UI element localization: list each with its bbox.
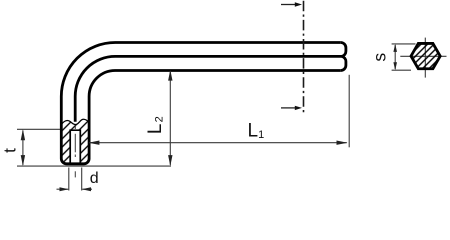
wavy break line [61, 119, 89, 124]
cutting plane arrow top [281, 4, 297, 6]
svg-text:d: d [90, 170, 99, 187]
dimension s line and arrows [394, 45, 396, 69]
hatched section of short arm [61, 119, 89, 164]
hexagon section centerline horizontal [400, 55, 446, 57]
centerline inside hole [74, 125, 76, 129]
svg-text:t: t [0, 148, 19, 153]
dimension d line and arrows [57, 188, 69, 190]
dimension t extension line top [17, 128, 61, 130]
dimension d extension lines [68, 168, 70, 191]
key body outline [61, 43, 340, 164]
section cutting plane chain line [303, 1, 305, 114]
dimension L1 line [89, 142, 347, 144]
svg-text:s: s [370, 53, 390, 62]
hexagon cross-section (view of cut) [411, 43, 440, 68]
L1 extension line at tip [348, 75, 350, 148]
hexagon section centerline vertical [424, 38, 426, 78]
dimension t extension line bottom (shared with L2) [17, 165, 171, 167]
pin-relief hole (slot) in sectioned tip [70, 130, 80, 164]
key middle hex edge line [75, 56, 342, 121]
dimension t line [22, 131, 24, 165]
dimension L2 line [169, 71, 171, 165]
centerline below arm [74, 171, 76, 177]
cutting plane arrow bottom [281, 107, 297, 109]
key chamfered tip (right end) [341, 43, 346, 71]
dimension s extension lines [392, 43, 416, 45]
